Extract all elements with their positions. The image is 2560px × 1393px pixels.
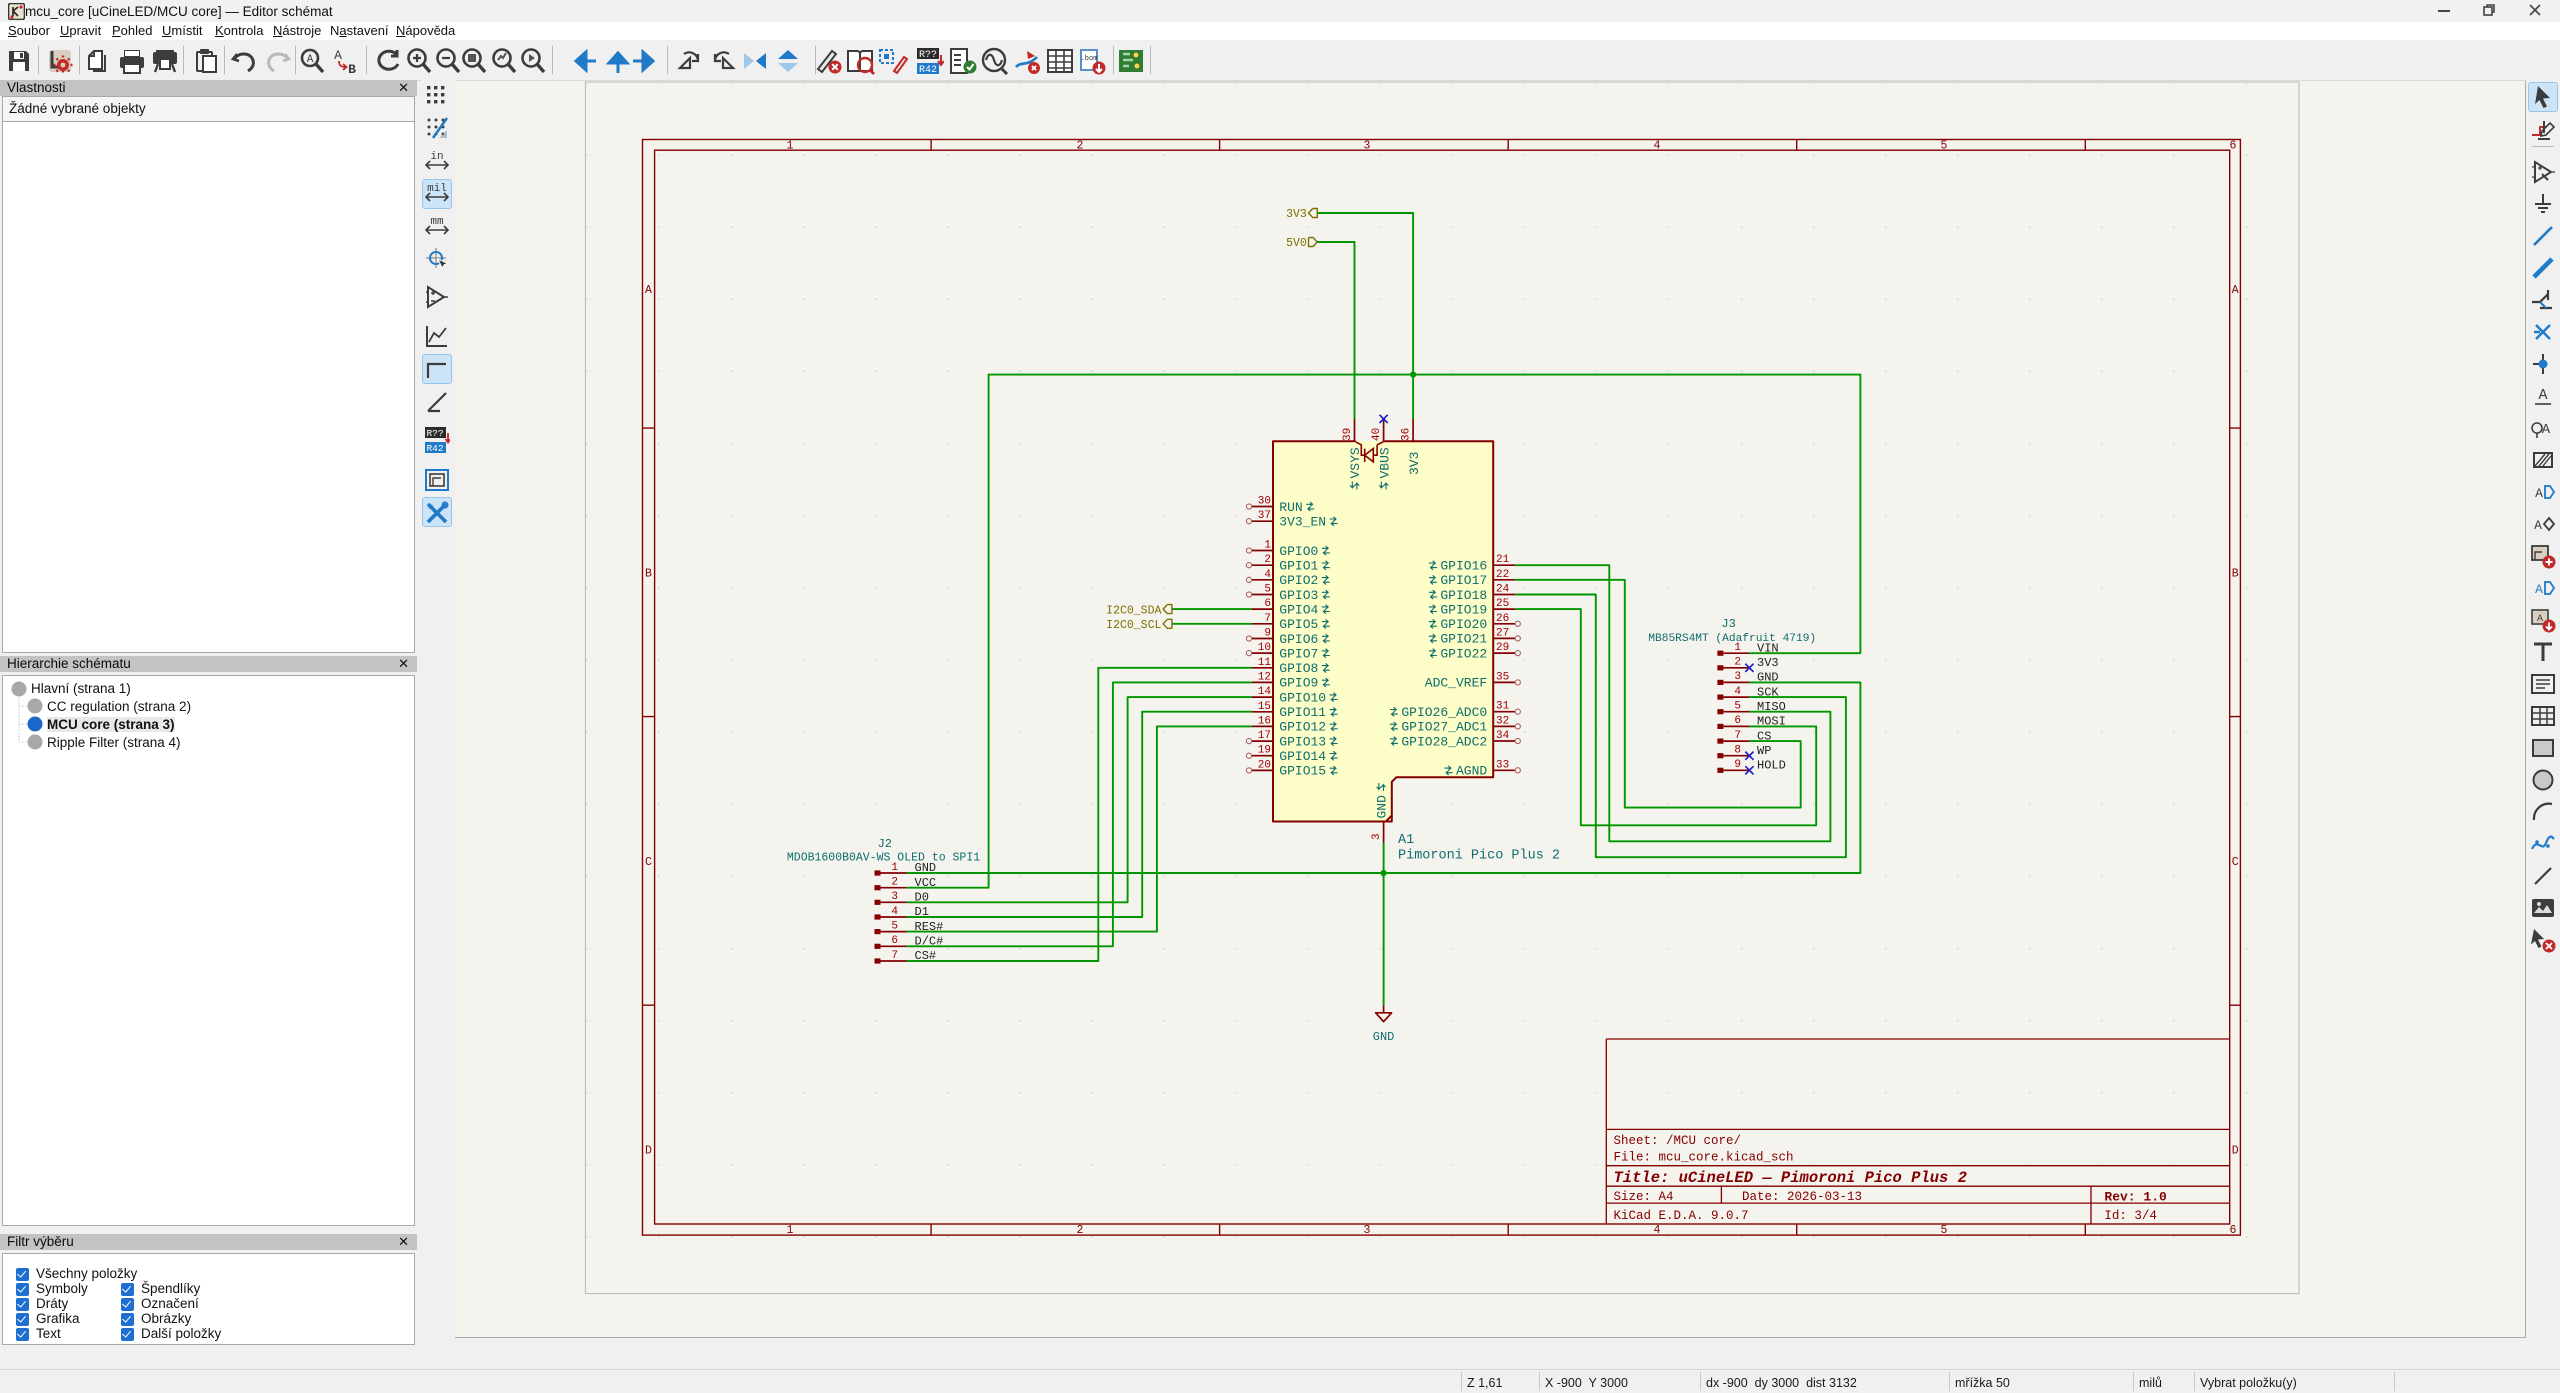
J2 pin 5 RES# [875, 920, 944, 934]
A1 pin 9 GPIO6 [1246, 628, 1329, 647]
J3 pin 7 CS [1717, 729, 1771, 743]
svg-text:GPIO15: GPIO15 [1279, 764, 1326, 779]
svg-text:D: D [2232, 1145, 2239, 1158]
left tool strip [421, 80, 455, 1345]
wire 3V3 junction left to J2 VCC [907, 375, 1414, 888]
J2 pin 4 D1 [875, 905, 929, 919]
wire GPIO10 to J2 D0 [907, 697, 1252, 902]
wire GPIO8 to J2 CS# [907, 668, 1252, 961]
svg-text:A: A [2542, 422, 2551, 438]
svg-text:GPIO10: GPIO10 [1279, 690, 1326, 705]
svg-text:GPIO13: GPIO13 [1279, 734, 1326, 749]
svg-text:3: 3 [891, 891, 898, 903]
svg-text:RUN: RUN [1279, 500, 1302, 515]
wire GND pin 3 down to GND symbol [1383, 843, 1385, 1005]
svg-text:37: 37 [1258, 510, 1271, 522]
svg-text:CS: CS [1757, 729, 1771, 743]
svg-text:GPIO14: GPIO14 [1279, 749, 1326, 764]
A1 pin 29 GPIO22 [1429, 642, 1521, 661]
window title bar [0, 0, 2560, 22]
svg-text:30: 30 [1258, 496, 1271, 508]
J3 pin 3 GND [1717, 671, 1778, 685]
A1 pin 22 GPIO17 [1429, 569, 1515, 588]
svg-text:6: 6 [2230, 140, 2237, 153]
symbol A1 Pimoroni Pico Plus 2 [1273, 441, 1493, 821]
A1 pin 14 GPIO10 [1252, 686, 1338, 705]
svg-text:GPIO0: GPIO0 [1279, 544, 1318, 559]
A1 pin 35 ADC_VREF [1425, 671, 1521, 690]
svg-text:GPIO21: GPIO21 [1440, 632, 1487, 647]
svg-text:J3: J3 [1721, 617, 1735, 631]
svg-text:2: 2 [891, 877, 898, 889]
svg-text:27: 27 [1496, 627, 1509, 639]
grid dots [586, 83, 2247, 1237]
svg-text:17: 17 [1258, 730, 1271, 742]
svg-text:5: 5 [1264, 584, 1271, 596]
svg-text:VBUS: VBUS [1377, 447, 1392, 478]
svg-text:B: B [2232, 567, 2239, 580]
svg-text:9: 9 [1734, 759, 1741, 771]
svg-text:C: C [645, 856, 652, 869]
svg-text:5: 5 [1941, 140, 1948, 153]
svg-text:A: A [307, 54, 314, 66]
svg-text:Size: A4: Size: A4 [1614, 1190, 1674, 1204]
svg-text:GPIO27_ADC1: GPIO27_ADC1 [1401, 720, 1487, 735]
svg-text:Date: 2026-03-13: Date: 2026-03-13 [1742, 1190, 1862, 1204]
svg-text:39: 39 [1342, 428, 1354, 441]
svg-text:I2C0_SDA: I2C0_SDA [1106, 604, 1161, 617]
A1 pin 11 GPIO8 [1252, 657, 1330, 676]
svg-text:B: B [348, 62, 356, 75]
svg-text:GPIO20: GPIO20 [1440, 617, 1487, 632]
J3 pin 1 VIN [1717, 641, 1778, 655]
svg-text:10: 10 [1258, 642, 1271, 654]
menu bar [0, 22, 2560, 40]
wire GPIO11 to J2 D1 [907, 712, 1252, 917]
svg-text:3: 3 [1364, 1224, 1371, 1237]
svg-text:GPIO4: GPIO4 [1279, 602, 1318, 617]
svg-text:2: 2 [1077, 1224, 1084, 1237]
svg-text:GND: GND [1757, 671, 1779, 685]
svg-text:MDOB1600B0AV-WS OLED to SPI1: MDOB1600B0AV-WS OLED to SPI1 [787, 852, 980, 865]
svg-text:File: mcu_core.kicad_sch: File: mcu_core.kicad_sch [1614, 1151, 1794, 1165]
svg-text:D0: D0 [915, 891, 929, 905]
canvas [455, 81, 2526, 1338]
canvas bottom and right edge [455, 81, 2526, 1338]
svg-text:A: A [645, 284, 652, 297]
svg-text:4: 4 [1734, 686, 1741, 698]
svg-text:3: 3 [1371, 833, 1383, 840]
svg-text:GPIO16: GPIO16 [1440, 559, 1487, 574]
app icon [8, 3, 25, 20]
svg-text:R??: R?? [426, 428, 443, 439]
svg-text:Rev: 1.0: Rev: 1.0 [2104, 1189, 2167, 1204]
svg-text:GPIO17: GPIO17 [1440, 573, 1487, 588]
svg-text:6: 6 [2230, 1224, 2237, 1237]
svg-text:25: 25 [1496, 598, 1509, 610]
wire GND rail J2 pin1 to J3 GND [907, 682, 1861, 873]
J2 pin 6 D/C# [875, 935, 944, 949]
svg-text:5: 5 [1941, 1224, 1948, 1237]
right tool strip [2526, 80, 2560, 1345]
svg-text:ADC_VREF: ADC_VREF [1425, 676, 1487, 691]
wire GPIO19 to J3 MOSI [1515, 609, 1816, 825]
svg-text:14: 14 [1258, 686, 1272, 698]
A1 pin 26 GPIO20 [1429, 613, 1521, 632]
A1 pin 31 GPIO26_ADC0 [1390, 701, 1521, 720]
svg-text:GPIO7: GPIO7 [1279, 646, 1318, 661]
svg-text:D1: D1 [915, 905, 929, 919]
svg-text:34: 34 [1496, 730, 1510, 742]
A1 internal diode between VSYS and VBUS [1356, 442, 1383, 462]
svg-text:4: 4 [1264, 569, 1271, 581]
svg-text:29: 29 [1496, 642, 1509, 654]
svg-text:A: A [2537, 614, 2543, 625]
wire 3V3 label to junction and pin 36 [1317, 213, 1413, 419]
J3 pin 9 HOLD [1717, 759, 1785, 775]
svg-text:A: A [2232, 284, 2239, 297]
svg-text:36: 36 [1400, 428, 1412, 441]
svg-text:VIN: VIN [1757, 641, 1779, 655]
svg-text:HOLD: HOLD [1757, 759, 1786, 773]
J3 pin 2 3V3 [1717, 656, 1778, 672]
A1 pin 24 GPIO18 [1429, 584, 1515, 603]
svg-text:CS#: CS# [915, 949, 937, 963]
A1 pin 17 GPIO13 [1246, 730, 1337, 749]
svg-text:3V3_EN: 3V3_EN [1279, 515, 1326, 530]
A1 pin 34 GPIO28_ADC2 [1390, 730, 1521, 749]
svg-text:35: 35 [1496, 671, 1509, 683]
svg-text:AGND: AGND [1456, 764, 1487, 779]
svg-text:7: 7 [1734, 730, 1741, 742]
svg-text:A: A [2535, 486, 2543, 501]
svg-text:A: A [334, 48, 342, 63]
svg-text:9: 9 [1264, 628, 1271, 640]
main toolbar [0, 40, 2560, 81]
svg-text:2: 2 [1264, 554, 1271, 566]
svg-text:D: D [645, 1145, 652, 1158]
svg-text:24: 24 [1496, 584, 1510, 596]
paper edge [585, 82, 2299, 1294]
svg-text:GPIO2: GPIO2 [1279, 573, 1318, 588]
svg-text:WP: WP [1757, 744, 1771, 758]
svg-text:GPIO9: GPIO9 [1279, 676, 1318, 691]
svg-text:J2: J2 [878, 837, 892, 851]
A1 pin 40 VBUS (no connect) [1371, 415, 1392, 490]
wire GPIO16 to J3 MISO [1515, 565, 1830, 841]
svg-text:KiCad E.D.A. 9.0.7: KiCad E.D.A. 9.0.7 [1614, 1209, 1749, 1223]
svg-text:in: in [430, 151, 443, 163]
svg-text:3V3: 3V3 [1757, 656, 1779, 670]
A1 pin 32 GPIO27_ADC1 [1390, 715, 1521, 734]
A1 pin 33 AGND [1445, 759, 1521, 778]
wire GPIO12 to J2 RES# [907, 726, 1252, 931]
svg-text:GPIO12: GPIO12 [1279, 720, 1326, 735]
svg-text:B: B [645, 567, 652, 580]
svg-text:Sheet: /MCU core/: Sheet: /MCU core/ [1614, 1134, 1742, 1148]
no-connect on J3 pin 2 [1745, 664, 1753, 672]
wire 3V3 junction right to J3 VIN [1413, 375, 1860, 654]
svg-text:1: 1 [1264, 540, 1271, 552]
J2 pin 2 VCC [875, 876, 937, 890]
svg-text:GPIO19: GPIO19 [1440, 602, 1487, 617]
svg-text:15: 15 [1258, 701, 1271, 713]
svg-text:Id: 3/4: Id: 3/4 [2104, 1209, 2157, 1223]
A1 pin 5 GPIO3 [1246, 584, 1329, 603]
J2 pin 1 GND [875, 861, 937, 875]
svg-text:A: A [2538, 387, 2547, 404]
svg-text:GND: GND [1373, 1030, 1395, 1044]
J2 pin 3 D0 [875, 891, 929, 905]
wire 5V0 label to pin 39 VSYS [1317, 242, 1354, 419]
A1 pin 15 GPIO11 [1252, 701, 1338, 720]
no-connect on J3 pin 9 [1745, 766, 1753, 774]
svg-text:1: 1 [787, 140, 794, 153]
A1 pin 4 GPIO2 [1246, 569, 1329, 588]
svg-text:16: 16 [1258, 715, 1271, 727]
canvas background [455, 81, 2526, 1338]
svg-text:4: 4 [891, 906, 898, 918]
window buttons [2438, 10, 2450, 12]
A1 pin 7 GPIO5 [1252, 613, 1330, 632]
svg-text:R42: R42 [919, 65, 937, 75]
svg-text:GPIO22: GPIO22 [1440, 646, 1487, 661]
J3 pin 6 MOSI [1717, 715, 1785, 729]
svg-text:21: 21 [1496, 554, 1510, 566]
svg-text:GPIO3: GPIO3 [1279, 588, 1318, 603]
svg-text:GND: GND [1375, 795, 1390, 819]
svg-text:MOSI: MOSI [1757, 715, 1786, 729]
A1 pin 3 GND (bottom) [1371, 783, 1390, 843]
A1 pin 12 GPIO9 [1252, 671, 1330, 690]
A1 pin 39 VSYS [1342, 419, 1363, 490]
svg-text:12: 12 [1258, 671, 1271, 683]
A1 pin 25 GPIO19 [1429, 598, 1515, 617]
svg-text:.bom: .bom [1081, 55, 1098, 63]
svg-text:SCK: SCK [1757, 685, 1779, 699]
svg-text:VCC: VCC [915, 876, 937, 890]
svg-text:2: 2 [1734, 657, 1741, 669]
svg-text:1: 1 [891, 862, 898, 874]
svg-text:6: 6 [1264, 598, 1271, 610]
no-connect on J3 pin 8 [1745, 752, 1753, 760]
wire I2C0_SDA label to GPIO4 [1172, 608, 1252, 610]
svg-text:7: 7 [1264, 613, 1271, 625]
A1 pin 2 GPIO1 [1246, 554, 1329, 573]
svg-text:8: 8 [1734, 745, 1741, 757]
svg-text:31: 31 [1496, 701, 1510, 713]
svg-text:GPIO26_ADC0: GPIO26_ADC0 [1401, 705, 1487, 720]
svg-text:GPIO11: GPIO11 [1279, 705, 1326, 720]
A1 pin 21 GPIO16 [1429, 554, 1515, 573]
svg-text:C: C [2232, 856, 2239, 869]
svg-text:3: 3 [1734, 671, 1741, 683]
A1 pin 36 3V3 [1400, 419, 1421, 475]
wire I2C0_SCL label to GPIO5 [1172, 623, 1252, 625]
J3 pin 4 SCK [1717, 685, 1779, 699]
svg-text:GPIO8: GPIO8 [1279, 661, 1318, 676]
svg-text:RES#: RES# [915, 920, 944, 934]
svg-text:R??: R?? [919, 50, 937, 61]
svg-text:R42: R42 [426, 443, 443, 454]
svg-text:5: 5 [891, 920, 898, 932]
A1 pin 27 GPIO21 [1429, 627, 1521, 646]
A1 pin 1 GPIO0 [1246, 540, 1329, 559]
svg-text:6: 6 [1734, 715, 1741, 727]
svg-text:40: 40 [1371, 428, 1383, 441]
A1 pin 6 GPIO4 [1252, 598, 1330, 617]
svg-text:3V3: 3V3 [1407, 452, 1422, 475]
title block [1606, 1039, 2229, 1224]
svg-text:Title: uCineLED — Pimoroni Pic: Title: uCineLED — Pimoroni Pico Plus 2 [1614, 1169, 1967, 1187]
left panels [0, 80, 417, 1392]
junction at GND branch [1381, 870, 1387, 876]
wire GPIO18 to J3 SCK [1515, 595, 1846, 858]
svg-text:GPIO6: GPIO6 [1279, 632, 1318, 647]
svg-text:A: A [2534, 518, 2542, 533]
svg-text:GND: GND [915, 861, 937, 875]
J3 pin 8 WP [1717, 744, 1771, 760]
svg-text:D/C#: D/C# [915, 935, 944, 949]
svg-text:MB85RS4MT (Adafruit 4719): MB85RS4MT (Adafruit 4719) [1648, 633, 1816, 645]
J3 pin 5 MISO [1717, 700, 1785, 714]
svg-text:I2C0_SCL: I2C0_SCL [1106, 619, 1161, 632]
svg-text:4: 4 [1654, 1224, 1661, 1237]
A1 pin 16 GPIO12 [1252, 715, 1338, 734]
svg-text:GPIO5: GPIO5 [1279, 617, 1318, 632]
svg-text:A: A [2535, 582, 2543, 597]
svg-text:32: 32 [1496, 715, 1509, 727]
svg-text:22: 22 [1496, 569, 1509, 581]
A1 pin 30 RUN [1246, 496, 1314, 515]
wire GPIO9 to J2 D/C# [907, 682, 1252, 946]
J2 pin 7 CS# [875, 949, 937, 963]
svg-text:1: 1 [787, 1224, 794, 1237]
ground symbol GND [1373, 1005, 1395, 1044]
svg-text:2: 2 [1077, 140, 1084, 153]
svg-text:mm: mm [430, 216, 444, 228]
svg-text:A1: A1 [1398, 833, 1414, 848]
A1 pin 10 GPIO7 [1246, 642, 1329, 661]
svg-text:3: 3 [1364, 140, 1371, 153]
junction at 3V3 branch [1410, 372, 1416, 378]
svg-text:33: 33 [1496, 759, 1509, 771]
A1 pin 19 GPIO14 [1246, 745, 1337, 764]
svg-text:4: 4 [1654, 140, 1661, 153]
svg-text:26: 26 [1496, 613, 1509, 625]
svg-text:GPIO28_ADC2: GPIO28_ADC2 [1401, 734, 1487, 749]
svg-text:Pimoroni Pico Plus 2: Pimoroni Pico Plus 2 [1398, 849, 1560, 864]
svg-text:GPIO1: GPIO1 [1279, 559, 1318, 574]
wire GPIO17 to J3 CS [1515, 580, 1801, 808]
svg-text:7: 7 [891, 950, 898, 962]
svg-text:20: 20 [1258, 759, 1271, 771]
sheet frame border [643, 140, 2241, 1236]
svg-text:11: 11 [1258, 657, 1272, 669]
svg-text:MISO: MISO [1757, 700, 1786, 714]
svg-text:3V3: 3V3 [1286, 208, 1307, 221]
svg-text:5V0: 5V0 [1286, 237, 1307, 250]
svg-text:5: 5 [1734, 701, 1741, 713]
A1 pin 20 GPIO15 [1246, 759, 1337, 778]
svg-text:19: 19 [1258, 745, 1271, 757]
svg-text:GPIO18: GPIO18 [1440, 588, 1487, 603]
status bar [0, 1369, 2560, 1393]
svg-text:6: 6 [891, 935, 898, 947]
A1 pin 37 3V3_EN [1246, 510, 1337, 529]
svg-text:1: 1 [1734, 642, 1741, 654]
svg-text:VSYS: VSYS [1348, 447, 1363, 478]
